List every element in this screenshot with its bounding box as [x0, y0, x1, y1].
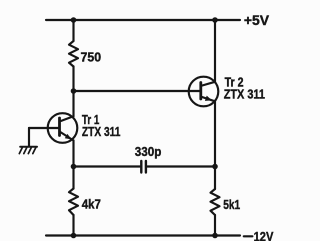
junction dot bottom left — [71, 233, 77, 239]
transistor Q1 Tr1 circle — [48, 113, 78, 143]
wire right bus top (rail to Tr2 collector) — [214, 20, 216, 82]
transistor Q2 Tr2 base bar — [199, 83, 202, 100]
resistor R 750 — [69, 41, 78, 67]
svg-text:750: 750 — [81, 49, 102, 64]
ground stem — [28, 128, 30, 147]
junction dot bottom right — [212, 233, 218, 239]
transistor Q1 Tr1 emitter diagonal — [60, 132, 74, 141]
resistor R 5k1 — [211, 189, 220, 215]
wire node B to capacitor left plate — [74, 165, 141, 167]
capacitor C 330p plates — [140, 161, 142, 173]
svg-text:+5V: +5V — [244, 12, 270, 28]
wire 4k7 to bottom rail — [72, 215, 74, 236]
wire top +5V rail — [46, 19, 240, 21]
transistor Q2 Tr2 collector diagonal — [201, 82, 216, 86]
svg-text:4k7: 4k7 — [82, 197, 101, 212]
resistor R 4k7 — [69, 189, 78, 216]
wire left bus top (rail to R1) — [72, 20, 74, 41]
wire Tr2 base link (node A to Tr2 base) — [74, 90, 201, 92]
junction dot top left — [71, 17, 77, 23]
ground symbol hatches — [19, 147, 37, 154]
junction dot top right — [212, 17, 218, 23]
transistor Q2 Tr2 emitter diagonal — [201, 97, 216, 102]
minus sign of -12V — [244, 235, 253, 237]
svg-text:12V: 12V — [254, 229, 274, 241]
transistor Q2 Tr2 emitter arrowhead — [205, 96, 212, 101]
wire capacitor right plate to node C — [147, 165, 215, 167]
wire Tr1 emitter down to node B — [72, 141, 74, 189]
junction dot node A (Tr2 base tap) — [71, 88, 77, 94]
junction dot node C (Tr2 emitter / cap) — [212, 164, 218, 170]
svg-text:330p: 330p — [135, 144, 162, 159]
wire bottom -12V rail — [46, 234, 240, 236]
wire Tr1 base to ground — [29, 127, 60, 129]
svg-text:5k1: 5k1 — [223, 197, 240, 212]
svg-text:ZTX 311: ZTX 311 — [82, 124, 121, 139]
wire Tr2 emitter down to node C — [214, 101, 216, 189]
wire R750 bottom to Tr1 collector node — [72, 67, 74, 117]
transistor Q1 Tr1 base bar — [58, 118, 61, 136]
junction dot node B (Tr1 emitter / cap) — [71, 164, 77, 170]
transistor Q1 Tr1 collector diagonal — [60, 116, 74, 121]
wire 5k1 to bottom rail — [214, 215, 216, 236]
svg-text:ZTX 311: ZTX 311 — [224, 86, 265, 101]
transistor Q2 Tr2 circle — [189, 77, 219, 107]
transistor Q1 Tr1 emitter arrowhead — [65, 134, 72, 140]
